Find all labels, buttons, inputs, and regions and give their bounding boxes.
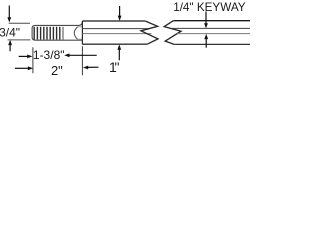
keyway up arrowhead [204, 34, 208, 39]
3/4 dim up arrow stem [9, 44, 11, 51]
svg-text:2": 2" [51, 63, 63, 78]
shaft shoulder [81, 21, 83, 45]
2in dim left arrow stem [15, 67, 28, 69]
svg-text:1": 1" [109, 59, 119, 75]
pilot section bottom line [77, 38, 82, 40]
2in dim right arrowhead [83, 66, 88, 70]
keyway bottom line (main) [82, 33, 151, 35]
3/4 dim bottom extension line [8, 39, 31, 41]
right shaft top edge [173, 20, 250, 22]
keyway down arrow stem [205, 12, 207, 25]
svg-text:3/4": 3/4" [0, 25, 20, 39]
3/4 dim down arrowhead [7, 17, 11, 22]
svg-text:1/4" KEYWAY: 1/4" KEYWAY [173, 1, 246, 14]
1-3/8 dim left arrowhead [27, 55, 32, 59]
1in dia up arrow stem [118, 49, 120, 61]
keyway top line (main) [82, 28, 148, 30]
1-3/8 dim right arrow stem [69, 54, 97, 56]
main shaft top edge [82, 20, 145, 22]
3/4 dim up arrowhead [8, 40, 12, 45]
1-3/8 dim right arrowhead [64, 53, 69, 57]
1in dia down arrowhead [118, 16, 122, 21]
2in dim left arrowhead [28, 66, 33, 70]
thread crest lines [34, 27, 63, 40]
keyway up arrow stem [205, 38, 207, 48]
thread runout arc [74, 27, 77, 40]
1in dia up arrowhead [117, 44, 121, 49]
break zigzag right piece [164, 21, 181, 45]
3/4 dim down arrow stem [8, 6, 10, 19]
svg-text:1-3/8": 1-3/8" [33, 48, 65, 62]
keyway top line (right) [171, 27, 250, 29]
left extension line (thread start) [32, 47, 34, 73]
3/4 dim top extension line [9, 22, 30, 24]
keyway down arrowhead [204, 23, 208, 28]
keyway bottom line (right) [177, 33, 250, 35]
1in dia down arrow stem [119, 6, 121, 17]
pilot section top line [77, 26, 82, 28]
threaded stub outline [32, 22, 82, 40]
right shaft bottom edge [174, 43, 250, 45]
right extension line (shoulder) [81, 46, 83, 75]
break zigzag left piece [141, 21, 158, 44]
1-3/8 dim left arrow stem [19, 55, 28, 57]
2in dim right arrow stem [87, 66, 98, 68]
main shaft bottom edge [82, 43, 147, 45]
